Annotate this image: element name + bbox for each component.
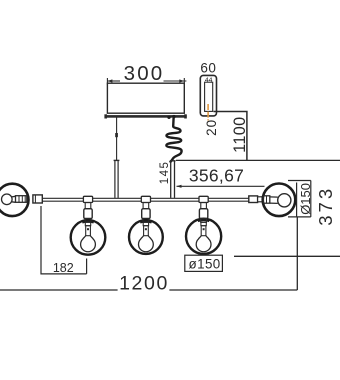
hanging globe 1 — [71, 196, 106, 254]
coil cord — [166, 115, 181, 163]
canopy rect — [107, 83, 184, 113]
line 373 bottom ref — [234, 255, 340, 257]
right globe dim box O150 — [288, 181, 311, 217]
arm left end cylinder — [33, 195, 42, 203]
cable joint — [115, 133, 118, 137]
svg-text:ø150: ø150 — [189, 256, 221, 271]
arm — [42, 198, 249, 201]
arm right end pieces — [249, 196, 258, 203]
svg-text:300: 300 — [124, 62, 165, 85]
svg-text:60: 60 — [200, 60, 216, 75]
top reference line — [176, 159, 340, 161]
svg-text:20: 20 — [204, 119, 219, 136]
svg-text:145: 145 — [159, 161, 171, 185]
canopy base plate — [104, 114, 186, 118]
left bulb — [2, 194, 27, 205]
svg-text:356,67: 356,67 — [189, 165, 244, 185]
dim line 356,67 — [177, 185, 265, 188]
right rod — [170, 161, 176, 198]
svg-text:Ø150: Ø150 — [298, 183, 313, 215]
dim 182 bracket — [41, 206, 87, 274]
dim box o150 bottom — [185, 255, 223, 271]
centerline orange — [207, 104, 209, 121]
detail box 60 — [200, 75, 216, 116]
left tube — [114, 160, 120, 198]
svg-text:44: 44 — [205, 77, 213, 84]
dim line 1200 — [0, 217, 297, 290]
hanging globe 3 — [186, 196, 221, 254]
left hanger cable — [116, 116, 118, 161]
right bulb — [263, 194, 291, 207]
left globe — [0, 184, 29, 216]
right globe — [263, 184, 296, 217]
svg-text:373: 373 — [315, 186, 336, 226]
dim 300 — [107, 78, 186, 85]
svg-text:1100: 1100 — [231, 116, 249, 152]
hanging globe 2 — [129, 196, 163, 254]
dim 1100 extension and line — [214, 112, 247, 161]
svg-text:182: 182 — [53, 261, 74, 275]
svg-text:1200: 1200 — [119, 273, 169, 295]
